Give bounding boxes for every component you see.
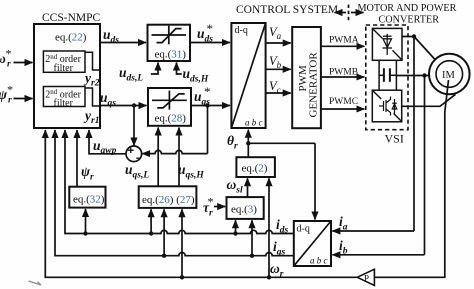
svg-text:eq.(32): eq.(32) (73, 194, 105, 206)
svg-text:eq.(28): eq.(28) (155, 113, 187, 125)
svg-text:MOTOR AND POWER: MOTOR AND POWER (358, 3, 457, 14)
svg-text:uqs,L: uqs,L (125, 162, 149, 181)
svg-text:*: * (204, 84, 211, 99)
svg-text:P: P (364, 274, 369, 284)
svg-text:ωsl: ωsl (227, 177, 243, 196)
svg-text:ψr: ψr (81, 164, 94, 183)
svg-text:iqs: iqs (273, 239, 286, 258)
svg-text:CONTROL SYSTEM: CONTROL SYSTEM (236, 4, 338, 16)
svg-text:Va: Va (269, 25, 282, 41)
svg-text:*: * (208, 195, 214, 209)
svg-text:a b c: a b c (310, 256, 328, 266)
svg-text:PWMB: PWMB (329, 68, 358, 78)
svg-text:filter: filter (54, 63, 74, 74)
svg-text:*: * (6, 47, 12, 61)
svg-text:eq.(2): eq.(2) (242, 163, 268, 175)
svg-text:CONVERTER: CONVERTER (379, 15, 440, 26)
svg-text:θr: θr (227, 133, 238, 152)
svg-text:filter: filter (54, 98, 74, 109)
svg-text:a b c: a b c (245, 118, 263, 128)
svg-text:Vb: Vb (269, 54, 282, 70)
svg-text:PWMA: PWMA (329, 36, 359, 46)
svg-text:*: * (7, 83, 13, 97)
svg-text:*: * (207, 21, 214, 36)
svg-text:r: r (7, 60, 11, 70)
svg-text:VSI: VSI (385, 132, 404, 146)
svg-text:ib: ib (339, 238, 348, 257)
svg-text:d-q: d-q (235, 25, 248, 36)
svg-text:eq.(26) (27): eq.(26) (27) (142, 194, 195, 206)
svg-text:IM: IM (442, 70, 455, 81)
svg-text:eq.(22): eq.(22) (55, 32, 87, 44)
svg-text:GENERATOR: GENERATOR (308, 52, 320, 118)
svg-text:CCS-NMPC: CCS-NMPC (42, 12, 100, 24)
svg-text:eq.(3): eq.(3) (231, 204, 257, 216)
svg-text:d-q: d-q (297, 224, 310, 235)
svg-text:r: r (8, 96, 12, 106)
svg-text:ia: ia (339, 214, 348, 233)
svg-text:uds,L: uds,L (119, 65, 143, 84)
svg-text:yr1: yr1 (83, 108, 99, 126)
svg-text:Vc: Vc (269, 79, 281, 95)
svg-text:uds,H: uds,H (183, 66, 209, 85)
svg-text:PWMC: PWMC (329, 97, 358, 107)
svg-text:eq.(31): eq.(31) (155, 49, 187, 61)
svg-text:uqs,H: uqs,H (178, 162, 204, 181)
